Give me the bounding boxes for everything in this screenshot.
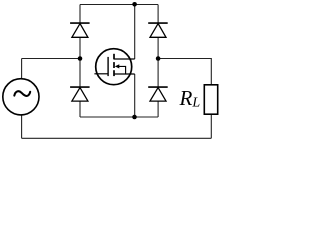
diode D2 top-right triangle bbox=[150, 24, 166, 38]
wire bottom rail bbox=[22, 137, 212, 139]
diode D4 bottom-right triangle bbox=[150, 88, 166, 102]
MOSFET Q1 channel top segment bbox=[113, 54, 115, 60]
wire AC top horizontal to left mid node bbox=[22, 58, 80, 60]
wire AC bottom vertical bbox=[21, 114, 23, 138]
wire left branch D1 anode to D3 cathode bbox=[79, 37, 81, 86]
diode D2 top-right cathode bar bbox=[148, 22, 168, 24]
node junction dot top (drain to + rail) bbox=[132, 2, 137, 7]
MOSFET Q1 gate lead bbox=[94, 73, 108, 75]
MOSFET Q1 channel bottom segment bbox=[113, 70, 115, 76]
wire top rail (bridge + output) bbox=[80, 4, 158, 6]
diode D1 top-left cathode bar bbox=[70, 22, 90, 24]
MOSFET Q1 envelope circle bbox=[96, 49, 132, 85]
wire MOSFET drain riser bbox=[134, 4, 136, 59]
MOSFET Q1 drain stub bbox=[114, 58, 135, 60]
MOSFET Q1 channel middle segment bbox=[113, 62, 115, 68]
MOSFET Q1 source stub bbox=[114, 73, 135, 75]
wire RL bottom riser bbox=[210, 114, 212, 138]
diode D3 bottom-left cathode bar bbox=[70, 86, 90, 88]
wire D3 anode drop bbox=[79, 101, 81, 117]
wire right branch D2 anode to D4 cathode bbox=[157, 37, 159, 86]
resistor RL box bbox=[204, 85, 217, 114]
wire lower bridge rail (bridge - output) bbox=[80, 116, 158, 118]
AC source V1 circle bbox=[3, 79, 39, 115]
node junction dot bottom (source to - rail) bbox=[132, 115, 137, 120]
wire MOSFET source drop bbox=[134, 74, 136, 117]
wire top-left drop to D1 cathode bbox=[79, 5, 81, 23]
svg-text:RL: RL bbox=[179, 86, 201, 111]
diode D1 top-left triangle bbox=[72, 24, 88, 38]
diode D4 bottom-right cathode bar bbox=[148, 86, 168, 88]
AC source V1 sine symbol bbox=[14, 91, 30, 96]
MOSFET Q1 bulk arrow head bbox=[115, 64, 120, 68]
MOSFET Q1 bulk connection wire bbox=[119, 66, 126, 74]
wire top-right drop to D2 cathode bbox=[157, 5, 159, 23]
diode D3 bottom-left triangle bbox=[72, 88, 88, 102]
node junction dot left mid (AC to left branch) bbox=[78, 56, 83, 61]
wire right mid node to RL top bbox=[158, 59, 211, 85]
wire AC top vertical bbox=[21, 59, 23, 80]
MOSFET Q1 gate bar bbox=[107, 57, 109, 76]
node junction dot right mid (right branch to RL) bbox=[156, 56, 161, 61]
wire D4 anode drop bbox=[157, 101, 159, 117]
